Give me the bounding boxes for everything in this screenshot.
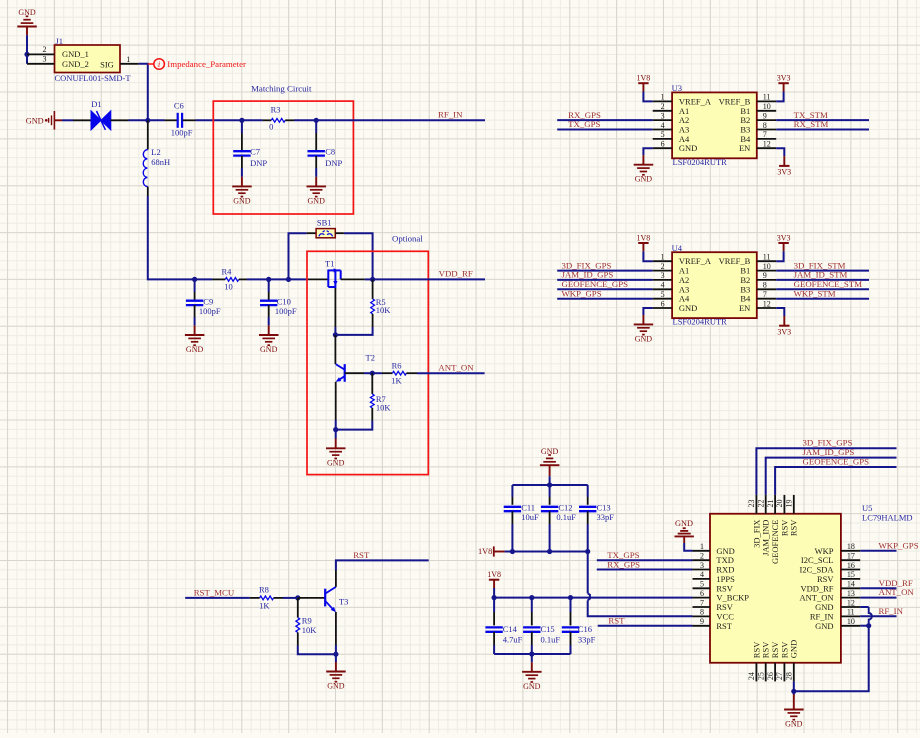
svg-text:GND: GND [308, 196, 326, 205]
svg-text:SIG: SIG [100, 59, 114, 69]
svg-text:1: 1 [661, 93, 665, 102]
svg-text:DNP: DNP [325, 158, 342, 168]
junction C7 node [239, 118, 244, 123]
wire C9 to gnd [194, 305, 196, 335]
svg-text:Optional: Optional [392, 233, 423, 243]
net label TX_GPS [568, 119, 600, 129]
svg-text:D1: D1 [91, 99, 101, 109]
annotation box Optional [307, 233, 428, 474]
wire RF_IN port [316, 119, 485, 121]
net label RX_GPS [568, 110, 601, 120]
wire GND net pin12 to pin10 with hop over RF_IN [860, 607, 872, 626]
junction RF node [145, 118, 150, 123]
wire R8 to R9 node [274, 597, 298, 599]
wire top rail C11-C13 [512, 484, 587, 486]
svg-text:RST: RST [608, 615, 625, 625]
svg-text:3V3: 3V3 [777, 233, 791, 242]
junction J1 pin2 [24, 52, 29, 57]
wire GND down to bottom rail [794, 626, 869, 692]
wire SB1 left leg [289, 233, 317, 279]
wire SIG to RF line [139, 64, 148, 121]
wire net GEOFENCE_STM (right of U4) [776, 288, 869, 290]
power 3V3 top (U3) [776, 74, 790, 102]
svg-text:100pF: 100pF [275, 306, 297, 316]
svg-text:10K: 10K [376, 305, 392, 315]
svg-text:GND: GND [815, 621, 833, 631]
wire C11 bottom lead [511, 511, 513, 551]
net label GEOFENCE_STM [794, 279, 863, 289]
pin 3 of U3 (A2) [653, 111, 690, 125]
wire net RST (U5 pin9) [598, 625, 693, 627]
svg-text:27: 27 [775, 672, 784, 680]
svg-text:0.1uF: 0.1uF [556, 512, 576, 522]
net label VDD_RF [439, 268, 473, 278]
net label JAM_ID_GPS [562, 270, 614, 280]
svg-text:C15: C15 [541, 624, 555, 634]
svg-text:C11: C11 [521, 502, 535, 512]
pin 2 of U5 (TXD) [693, 552, 734, 566]
svg-text:6: 6 [661, 140, 665, 149]
svg-text:9: 9 [700, 617, 704, 626]
svg-text:U4: U4 [672, 243, 683, 253]
svg-text:RST: RST [353, 550, 370, 560]
net label WKP_STM [794, 288, 836, 298]
wire C10 to SB1 node [269, 278, 289, 280]
svg-text:1V8: 1V8 [637, 74, 651, 83]
net label RF_IN (U5) [879, 606, 904, 616]
wire J1 pin2-pin3 vertical [26, 54, 28, 63]
wire junction to gnd symbol [793, 691, 795, 709]
svg-text:33pF: 33pF [597, 512, 615, 522]
pin 3 of J1 [27, 55, 55, 64]
svg-text:10: 10 [763, 262, 771, 271]
junction C8 node [314, 118, 319, 123]
svg-text:R4: R4 [222, 266, 233, 276]
net label GEOFENCE_GPS (U5) [803, 456, 870, 466]
svg-text:GND: GND [635, 334, 653, 343]
wire C14 top lead [493, 598, 495, 626]
net label GEOFENCE_GPS [562, 279, 629, 289]
wire bottom rail C14-C16 [494, 653, 570, 655]
pin 9 of U4 (B2) [740, 271, 776, 285]
svg-text:3V3: 3V3 [777, 168, 791, 177]
svg-text:T1: T1 [325, 258, 334, 268]
net label TX_GPS (U5) [607, 550, 639, 560]
svg-text:GND: GND [523, 682, 541, 691]
wire net 3D_FIX_GPS (U5 pin 23) [756, 448, 896, 495]
svg-text:1V8: 1V8 [478, 547, 492, 556]
svg-text:GND: GND [541, 447, 559, 456]
IC U5 [710, 503, 913, 663]
wire C10 lead [268, 279, 270, 300]
svg-text:2: 2 [661, 102, 665, 111]
svg-text:3V3: 3V3 [777, 327, 791, 336]
svg-text:RST_MCU: RST_MCU [194, 588, 235, 598]
wire emitter node to gnd [335, 654, 337, 671]
svg-text:1V8: 1V8 [487, 570, 501, 579]
svg-text:11: 11 [847, 608, 855, 617]
svg-text:GND: GND [18, 8, 36, 17]
net label JAM_ID_GPS (U5) [803, 447, 855, 457]
junction R5 top node [370, 277, 375, 282]
ground GND (C10) [259, 335, 279, 354]
svg-text:1: 1 [126, 55, 130, 64]
wire net WKP_GPS (left of U4) [557, 298, 653, 300]
wire emitter node to gnd [335, 430, 337, 449]
wire C8 to gnd [315, 156, 317, 186]
wire net RX_GPS (left of U3) [557, 119, 653, 121]
pin 9 of U5 (RST) [693, 617, 733, 631]
svg-text:100pF: 100pF [199, 306, 221, 316]
wire net TX_STM (right of U3) [776, 119, 869, 121]
svg-text:3: 3 [43, 55, 47, 64]
svg-text:L2: L2 [151, 147, 160, 157]
svg-text:C14: C14 [503, 624, 518, 634]
pin 4 of U3 (A3) [653, 121, 690, 135]
svg-text:8: 8 [763, 121, 767, 130]
pin 23 of U5 (3D_FIX) [747, 495, 761, 548]
wire VDD_RF port [373, 278, 485, 280]
ground GND (U5 pin1, pointing up) [675, 519, 694, 551]
pin 11 of U4 (VREF_B) [719, 253, 777, 267]
svg-text:RF_IN: RF_IN [438, 110, 463, 120]
wire V_BCKP rail [494, 597, 692, 599]
wire net JAM_ID_STM (right of U4) [776, 279, 869, 281]
pin 25 of U5 (RSV) [756, 641, 770, 682]
svg-text:11: 11 [763, 93, 771, 102]
junction 1V8 rail C11 [510, 549, 515, 554]
wire R5 bottom to base node [335, 327, 372, 335]
wire SB1 right leg [335, 233, 372, 279]
svg-text:7: 7 [763, 290, 767, 299]
pin 1 of J1 [120, 55, 139, 64]
pin 11 of U5 (RF_IN) [810, 608, 860, 622]
svg-text:22: 22 [756, 500, 765, 508]
svg-text:J1: J1 [56, 36, 64, 46]
ground GND (C15) [522, 672, 542, 691]
capacitor C7 [233, 147, 267, 168]
svg-text:EN: EN [739, 143, 750, 153]
svg-text:U3: U3 [672, 83, 682, 93]
svg-text:9: 9 [763, 271, 767, 280]
resistor R9 [296, 598, 317, 646]
capacitor C12 [541, 502, 576, 522]
wire C10 to gnd [268, 305, 270, 335]
capacitor C11 [504, 502, 539, 522]
junction GND pin10 node [866, 623, 871, 628]
svg-text:100pF: 100pF [171, 128, 193, 138]
svg-text:C16: C16 [578, 624, 592, 634]
pin 2 of J1 [27, 45, 55, 54]
wire net RF_IN (U5 pin11) [860, 615, 896, 617]
svg-text:68nH: 68nH [151, 157, 170, 167]
svg-text:GND: GND [26, 116, 44, 125]
svg-text:6: 6 [661, 299, 665, 308]
svg-text:R6: R6 [392, 361, 402, 371]
wire T3 emitter [335, 612, 337, 654]
wire RF node to L2 [147, 120, 149, 149]
junction SB1 left node [286, 277, 291, 282]
ground GND (U5 bottom) [784, 710, 804, 729]
wire C15 gnd lead [531, 654, 533, 672]
wire net TX_GPS (left of U3) [557, 129, 653, 131]
svg-text:GND: GND [260, 345, 278, 354]
wire T2 emitter [335, 382, 337, 430]
capacitor C10 [260, 297, 297, 316]
pin 3 of U4 (A2) [653, 271, 690, 285]
svg-text:DNP: DNP [250, 158, 267, 168]
pin 17 of U5 (I2C_SCL) [801, 552, 860, 566]
wire C15 top lead [531, 598, 533, 626]
power ground GND (left, bar style) [26, 111, 62, 130]
svg-text:3: 3 [661, 271, 665, 280]
pin 10 of U3 (B1) [740, 102, 776, 116]
pin 12 of U3 (EN) [739, 140, 776, 154]
diode D1 (TVS) [91, 99, 111, 130]
svg-text:20: 20 [775, 500, 784, 508]
svg-text:2: 2 [700, 552, 704, 561]
svg-text:T2: T2 [366, 353, 375, 363]
svg-text:12: 12 [847, 598, 855, 607]
resistor R5 [371, 279, 392, 327]
resistor R4 [222, 266, 239, 291]
capacitor C9 [186, 297, 221, 316]
IC U4 [672, 243, 757, 327]
solder bridge SB1 [316, 217, 335, 237]
pin 3 of U5 (RXD) [693, 561, 735, 575]
net label 3D_FIX_GPS [562, 260, 612, 270]
junction top rail C12 [547, 482, 552, 487]
resistor R3 [269, 105, 285, 132]
pin 24 of U5 (RSV) [747, 641, 761, 682]
wire base node to T2 collector [334, 335, 336, 364]
svg-text:4.7uF: 4.7uF [503, 634, 523, 644]
wire C7 node to R3 [242, 119, 271, 121]
net label WKP_GPS [562, 288, 602, 298]
svg-text:25: 25 [756, 672, 765, 680]
svg-text:10uF: 10uF [521, 512, 539, 522]
ground GND (C9) [185, 335, 205, 354]
svg-text:C8: C8 [325, 147, 335, 157]
wire C13 top lead [587, 485, 589, 505]
svg-text:GND: GND [679, 303, 697, 313]
svg-text:1K: 1K [391, 376, 402, 386]
net label ANT_ON (U5) [879, 587, 915, 597]
capacitor C16 [562, 624, 596, 644]
wire C6 to matching circuit [183, 119, 242, 121]
wire net WKP_STM (right of U4) [776, 298, 869, 300]
wire gnd to top rail [549, 476, 551, 485]
wire net 3D_FIX_GPS (left of U4) [557, 270, 653, 272]
pin 20 of U5 (RSV) [775, 495, 789, 536]
pin 1 of U5 (GND) [693, 542, 735, 556]
wire C16 top lead [570, 598, 572, 626]
transistor T1 [325, 258, 341, 288]
directive Impedance_Parameter [148, 59, 246, 70]
pin 10 of U4 (B1) [740, 262, 776, 276]
wire base node to T3 [298, 597, 325, 599]
resistor R7 [370, 373, 391, 420]
wire C16 bottom lead [570, 632, 572, 654]
svg-text:GND: GND [789, 640, 799, 658]
net label RST (T3) [353, 550, 370, 560]
pin 7 of U3 (B4) [740, 130, 776, 144]
net label 3D_FIX_STM [794, 260, 846, 270]
svg-text:10: 10 [763, 102, 771, 111]
pin 21 of U5 (GEOFENCE) [766, 495, 780, 564]
pin 5 of U3 (A4) [653, 130, 690, 144]
svg-text:3: 3 [700, 561, 704, 570]
net label RX_STM [794, 119, 829, 129]
svg-text:8: 8 [700, 608, 704, 617]
wire net VDD_RF (U5 pin14) [860, 587, 896, 589]
svg-text:2: 2 [661, 262, 665, 271]
power 1V8 (C11 rail, bar style) [478, 546, 505, 556]
ground GND (U4) [634, 308, 654, 343]
transistor T2 [336, 353, 375, 382]
svg-text:9: 9 [763, 111, 767, 120]
pin 10 of U5 (GND) [815, 617, 860, 631]
power 1V8 (C14 rail) [487, 570, 501, 598]
svg-text:GND: GND [675, 519, 693, 528]
pin 8 of U5 (VCC) [693, 608, 735, 622]
svg-text:4: 4 [661, 281, 665, 290]
wire net 3D_FIX_STM (right of U4) [776, 270, 869, 272]
svg-text:15: 15 [847, 570, 855, 579]
wire GND pin10 junction [860, 625, 869, 627]
wire C8 lead [315, 120, 317, 151]
svg-text:28: 28 [785, 672, 794, 680]
svg-text:3: 3 [661, 111, 665, 120]
svg-text:RX_STM: RX_STM [794, 119, 829, 129]
wire C13 bottom lead [587, 511, 589, 551]
svg-text:WKP_STM: WKP_STM [794, 288, 836, 298]
wire R7 to emitter node [336, 421, 373, 430]
junction C14 top [492, 595, 497, 600]
IC U3 [672, 83, 757, 167]
junction C10 node [266, 277, 271, 282]
svg-text:24: 24 [747, 672, 756, 680]
pin 19 of U5 (RSV) [785, 495, 799, 536]
svg-text:16: 16 [847, 561, 855, 570]
svg-text:3V3: 3V3 [777, 74, 791, 83]
wire L2 to VDD rail [148, 187, 195, 280]
svg-text:C12: C12 [558, 502, 572, 512]
ground GND (J1, pointing up) [17, 8, 37, 35]
capacitor C15 [523, 624, 560, 644]
net label RX_GPS (U5) [607, 559, 640, 569]
capacitor C14 [485, 624, 522, 644]
junction T3 emitter node [333, 652, 338, 657]
pin 4 of U5 (1PPS) [693, 570, 736, 584]
svg-text:13: 13 [847, 589, 855, 598]
pin 2 of U4 (A1) [653, 262, 690, 276]
svg-text:12: 12 [763, 299, 771, 308]
svg-text:18: 18 [847, 542, 855, 551]
svg-text:C13: C13 [597, 502, 611, 512]
net label JAM_ID_STM [794, 270, 848, 280]
pin 8 of U3 (B3) [740, 121, 776, 135]
net label ANT_ON [438, 362, 474, 372]
power 3V3 top (U4) [776, 233, 790, 261]
junction T2 emitter node [333, 427, 338, 432]
capacitor C8 [308, 147, 343, 168]
svg-text:C7: C7 [250, 147, 260, 157]
svg-text:4: 4 [661, 121, 665, 130]
svg-text:17: 17 [847, 552, 855, 561]
svg-text:33pF: 33pF [578, 634, 596, 644]
svg-text:10: 10 [224, 282, 233, 292]
svg-text:SB1: SB1 [317, 217, 332, 227]
wire net JAM_ID_GPS (U5 pin 22) [766, 458, 897, 495]
ground GND (U3) [634, 148, 654, 184]
wire C7 lead [241, 120, 243, 151]
wire C14 bottom lead [493, 632, 495, 654]
svg-text:R3: R3 [271, 105, 281, 115]
svg-text:T3: T3 [339, 597, 348, 607]
transistor T3 [325, 587, 348, 612]
svg-text:1K: 1K [259, 601, 270, 611]
svg-text:6: 6 [700, 589, 704, 598]
resistor R6 [372, 361, 417, 386]
connector J1 [55, 36, 132, 83]
pin 18 of U5 (WKP) [815, 542, 861, 556]
junction GND pin28 node [791, 689, 796, 694]
wire C11 top lead [511, 485, 513, 505]
junction bottom rail C15 [529, 651, 534, 656]
svg-text:Matching Circuit: Matching Circuit [251, 83, 312, 93]
junction 1V8 rail C13 [585, 549, 590, 554]
pin 1 of U3 (VREF_A) [653, 93, 712, 107]
wire net TX_GPS (U5 pin2) [597, 559, 693, 561]
svg-text:2: 2 [43, 45, 47, 54]
svg-text:CONUFL001-SMD-T: CONUFL001-SMD-T [55, 73, 132, 83]
wire C9 lead [194, 279, 196, 300]
svg-text:WKP_GPS: WKP_GPS [562, 288, 602, 298]
pin 7 of U5 (RSV) [693, 598, 734, 612]
pin 13 of U5 (ANT_ON) [800, 589, 861, 603]
inductor L2 [143, 147, 170, 187]
svg-text:ANT_ON: ANT_ON [438, 362, 474, 372]
ground GND (C7) [232, 186, 252, 205]
svg-text:RF_IN: RF_IN [879, 606, 904, 616]
svg-text:10K: 10K [302, 625, 318, 635]
pin 27 of U5 (RSV) [775, 641, 789, 682]
wire SB1 node to T1 [289, 278, 329, 280]
wire net WKP_GPS (U5 pin18) [860, 550, 896, 552]
svg-text:GND: GND [635, 175, 653, 184]
junction C16 top [568, 595, 573, 600]
pin 2 of U3 (A1) [653, 102, 690, 116]
svg-text:GND_2: GND_2 [62, 59, 89, 69]
pin 6 of U4 (GND) [653, 299, 698, 313]
svg-text:LSF0204RUTR: LSF0204RUTR [673, 157, 728, 167]
ground GND (T2) [326, 448, 346, 467]
svg-text:12: 12 [763, 140, 771, 149]
net label RST (U5) [608, 615, 625, 625]
pin 6 of U5 (V_BCKP) [693, 589, 750, 603]
net label WKP_GPS (U5) [879, 540, 919, 550]
junction 1V8 rail C12 [547, 549, 552, 554]
net label RF_IN [438, 110, 463, 120]
pin 22 of U5 (JAM_IND) [756, 495, 770, 556]
power 3V3 bottom (U3) [776, 148, 791, 176]
svg-text:GND_1: GND_1 [62, 49, 89, 59]
net label 3D_FIX_GPS (U5) [803, 438, 853, 448]
pin 5 of U4 (A4) [653, 290, 690, 304]
wire ANT_ON port [417, 372, 485, 374]
power 1V8 (U4) [637, 233, 653, 261]
